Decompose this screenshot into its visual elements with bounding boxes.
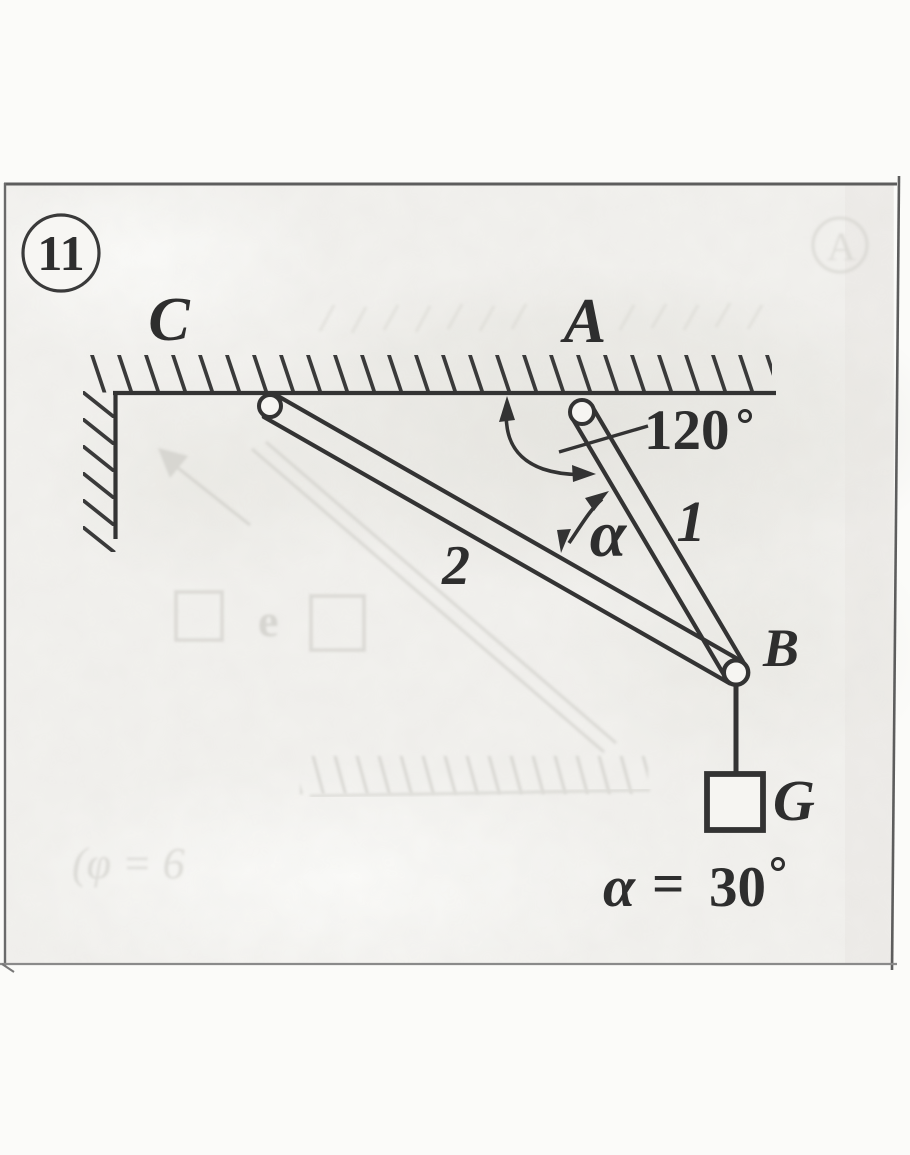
weight box [707,774,763,830]
bright area bottom [0,760,660,1000]
pin B hinge [724,660,748,684]
svg-text:11: 11 [37,225,84,281]
svg-text:1: 1 [677,489,706,554]
rod 2 [264,395,742,683]
ghost rod diagonal [252,442,616,752]
ghost hatch band bottom [300,756,648,794]
svg-text:A: A [560,285,607,356]
pin C hinge [259,395,281,417]
svg-text:B: B [762,618,799,678]
right inner gray strip [845,183,893,964]
svg-text:A: A [827,224,856,269]
svg-text:α: α [603,854,636,919]
svg-text:α: α [590,498,628,571]
arrowhead arc120 end [572,465,596,482]
problem number circle [23,215,99,291]
svg-text:e: e [258,595,278,646]
ghost dashes above ceiling [320,303,762,333]
gray wash right mid [550,510,910,790]
ghost hatch base line [310,790,650,796]
ghost bleed-through group [72,218,867,888]
arrowhead alpha bottom [557,529,571,553]
degree ring of 30 [773,859,784,870]
frame right border [892,176,899,970]
gray wash upper band [230,265,910,595]
ghost arrow upper-left [158,448,250,525]
svg-text:2: 2 [441,535,470,597]
ghost circled A top right [813,218,867,272]
paper grain overlay [4,183,894,964]
paper inside frame [4,183,894,964]
svg-text:=: = [652,853,684,916]
arrowhead arc120 top [499,396,515,422]
degree ring of 120 [740,411,751,422]
weight rope [734,685,739,775]
arrowhead alpha top [585,491,609,511]
ghost square left [176,592,222,640]
svg-text:C: C [148,286,190,354]
svg-text:(φ = 6: (φ = 6 [72,839,185,888]
frame corner tick bottom-left [2,964,14,972]
pin A hinge [570,400,594,424]
svg-text:30: 30 [709,856,766,919]
gray wash left mid [40,370,380,590]
frame top border [4,183,897,186]
ghost square mid [311,596,364,650]
svg-text:G: G [773,768,815,833]
bright spot top-left [0,160,330,360]
wall hatch [83,391,116,552]
angle arc 120 [506,404,590,474]
wall line [113,391,117,539]
leader line 120 [559,426,648,452]
angle arc alpha [569,499,602,543]
ceiling hatch [84,355,772,393]
frame bottom border [0,963,897,965]
svg-text:120: 120 [644,399,730,462]
ceiling line [113,391,776,395]
frame left border [4,183,6,966]
rod 1 [572,406,746,678]
